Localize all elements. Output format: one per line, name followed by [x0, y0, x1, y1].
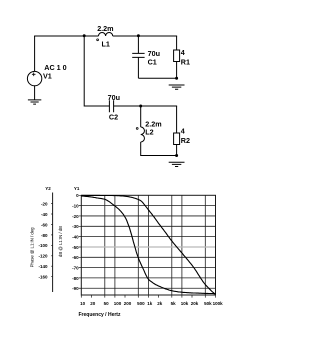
- capacitor C2: [109, 100, 113, 112]
- wire: L2 top lead: [140, 106, 142, 127]
- ground (V1): [28, 100, 41, 104]
- inductor L1: [99, 32, 113, 36]
- svg-text:10k: 10k: [181, 301, 189, 306]
- svg-text:L2: L2: [145, 127, 153, 136]
- svg-text:-40: -40: [41, 212, 48, 217]
- svg-text:-80: -80: [72, 276, 79, 281]
- svg-text:-120: -120: [38, 254, 48, 259]
- wire: C2 right to node B: [114, 105, 141, 107]
- wire: V1 top to top rail: [34, 36, 36, 72]
- svg-text:1k: 1k: [147, 301, 153, 306]
- svg-text:100: 100: [114, 301, 122, 306]
- y2 axis ticks: [51, 204, 53, 277]
- svg-text:C2: C2: [109, 112, 118, 121]
- svg-text:-30: -30: [72, 224, 79, 229]
- svg-text:-60: -60: [72, 255, 79, 260]
- svg-text:200: 200: [124, 301, 132, 306]
- svg-text:-90: -90: [72, 286, 79, 291]
- wire: branch drop from source node: [84, 36, 109, 107]
- V1 plus sign: [32, 73, 36, 77]
- x axis ticks: [81, 295, 215, 298]
- svg-text:-20: -20: [72, 214, 79, 219]
- svg-text:70u: 70u: [108, 93, 120, 102]
- phase dot L2: [136, 127, 138, 129]
- wire: L2 bottom lead and bottom rail: [141, 142, 177, 156]
- svg-text:50: 50: [104, 301, 110, 306]
- wire: R2 bottom lead: [176, 145, 178, 156]
- wire: C1 bottom to R1 bottom: [138, 77, 176, 79]
- ground (R2): [169, 162, 185, 166]
- wire: R1 bottom lead: [176, 62, 178, 79]
- svg-text:4: 4: [181, 48, 185, 57]
- svg-text:50k: 50k: [204, 301, 212, 306]
- node: R1 bottom junction: [175, 77, 178, 80]
- curve: phase: [81, 196, 215, 294]
- cursor line at -50dB/-100deg: [81, 246, 215, 248]
- svg-text:-100: -100: [38, 243, 48, 248]
- svg-text:10: 10: [80, 301, 86, 306]
- svg-text:-140: -140: [38, 264, 48, 269]
- node B: C2/L2/R2 junction: [139, 105, 142, 108]
- wire: R2 top lead: [176, 106, 178, 133]
- svg-text:-60: -60: [41, 222, 48, 227]
- svg-text:L1: L1: [102, 39, 110, 48]
- voltage source V1: [27, 71, 41, 85]
- svg-text:dB @ L1:IN / dB: dB @ L1:IN / dB: [58, 226, 63, 257]
- y1 tick labels: [72, 193, 79, 291]
- capacitor C1: [132, 53, 144, 57]
- svg-text:4: 4: [181, 127, 185, 136]
- axis header Y2: [45, 186, 80, 191]
- svg-text:0: 0: [76, 193, 79, 198]
- wire: C1 top lead: [137, 36, 139, 54]
- wire: R1 top lead: [176, 36, 178, 50]
- svg-text:-80: -80: [41, 233, 48, 238]
- wire: C1 bottom lead: [137, 58, 139, 79]
- svg-text:-40: -40: [72, 235, 79, 240]
- svg-text:500: 500: [137, 301, 145, 306]
- label L1 value: [43, 24, 190, 145]
- svg-text:-70: -70: [72, 266, 79, 271]
- wire: node B to R2 top: [141, 105, 177, 107]
- wire: V1 bottom lead: [34, 86, 36, 100]
- node: source branch junction: [83, 34, 86, 37]
- x tick labels: [80, 301, 223, 306]
- y1 axis ticks: [79, 195, 82, 288]
- svg-text:Y1: Y1: [74, 186, 80, 191]
- curve: magnitude dB: [81, 195, 215, 294]
- svg-text:5k: 5k: [171, 301, 177, 306]
- svg-text:20k: 20k: [191, 301, 199, 306]
- svg-text:-10: -10: [72, 204, 79, 209]
- svg-text:Phase @ L1:IN / deg: Phase @ L1:IN / deg: [30, 227, 35, 268]
- phase dot L1: [97, 39, 99, 41]
- y2 tick labels: [38, 201, 48, 279]
- ground (R1): [169, 85, 185, 89]
- resistor R1: [174, 50, 180, 62]
- svg-text:-20: -20: [41, 201, 48, 206]
- svg-text:2k: 2k: [157, 301, 163, 306]
- svg-text:V1: V1: [43, 71, 52, 80]
- svg-text:R2: R2: [181, 136, 190, 145]
- grid horizontal lines: [81, 206, 215, 289]
- svg-text:20: 20: [90, 301, 96, 306]
- plot frame: [81, 195, 215, 295]
- svg-text:-50: -50: [72, 245, 79, 250]
- svg-text:-160: -160: [38, 275, 48, 280]
- resistor R2: [174, 133, 180, 145]
- svg-text:R1: R1: [181, 58, 190, 67]
- inductor L2: [141, 127, 145, 142]
- svg-text:100k: 100k: [213, 301, 224, 306]
- wire: top rail right segment: [113, 35, 177, 37]
- wire: top rail left segment: [34, 35, 98, 37]
- y2 axis line: [52, 193, 54, 293]
- node: C1 tap junction: [137, 34, 140, 37]
- node: R2 bottom junction: [175, 154, 178, 157]
- svg-text:C1: C1: [148, 58, 157, 67]
- svg-text:2.2m: 2.2m: [97, 24, 113, 33]
- svg-text:Y2: Y2: [45, 186, 51, 191]
- svg-text:Frequency / Hertz: Frequency / Hertz: [79, 312, 121, 318]
- grid vertical lines: [105, 195, 206, 295]
